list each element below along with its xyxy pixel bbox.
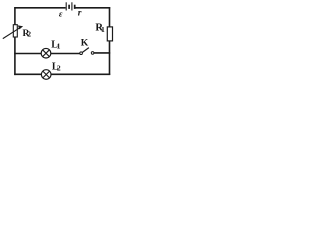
wire left upper [14,7,16,25]
wire middle right [94,52,110,54]
svg-text:1: 1 [57,42,61,51]
svg-text:r: r [78,9,82,19]
wire top-right segment [75,7,110,9]
wire right lower [109,41,111,75]
switch K [80,48,94,55]
battery cell plate short 1 [68,5,70,9]
wire right upper [109,7,111,27]
rheostat R2 arrow [3,25,23,38]
resistor R2 box [13,25,17,37]
svg-text:1: 1 [101,25,105,34]
wire middle lamp-to-switch [51,53,80,55]
lamp L2 [41,70,51,80]
label L2 [52,61,61,72]
label R2 [23,28,32,39]
wire top-left segment [14,7,65,9]
label L1 [51,40,60,51]
svg-text:2: 2 [27,30,31,39]
label R1 [95,23,105,35]
wire middle left [14,53,41,55]
svg-text:ε: ε [59,9,63,19]
battery cell plate long 2 [71,2,73,10]
battery cell plate long 1 [65,2,67,10]
svg-text:2: 2 [57,64,61,73]
wire bottom right [51,73,110,75]
svg-text:K: K [81,37,89,48]
resistor R1 box [107,27,112,41]
wire bottom left [14,73,41,75]
wire left lower [14,37,16,75]
battery cell plate short 2 [74,5,76,9]
lamp L1 [41,48,51,58]
